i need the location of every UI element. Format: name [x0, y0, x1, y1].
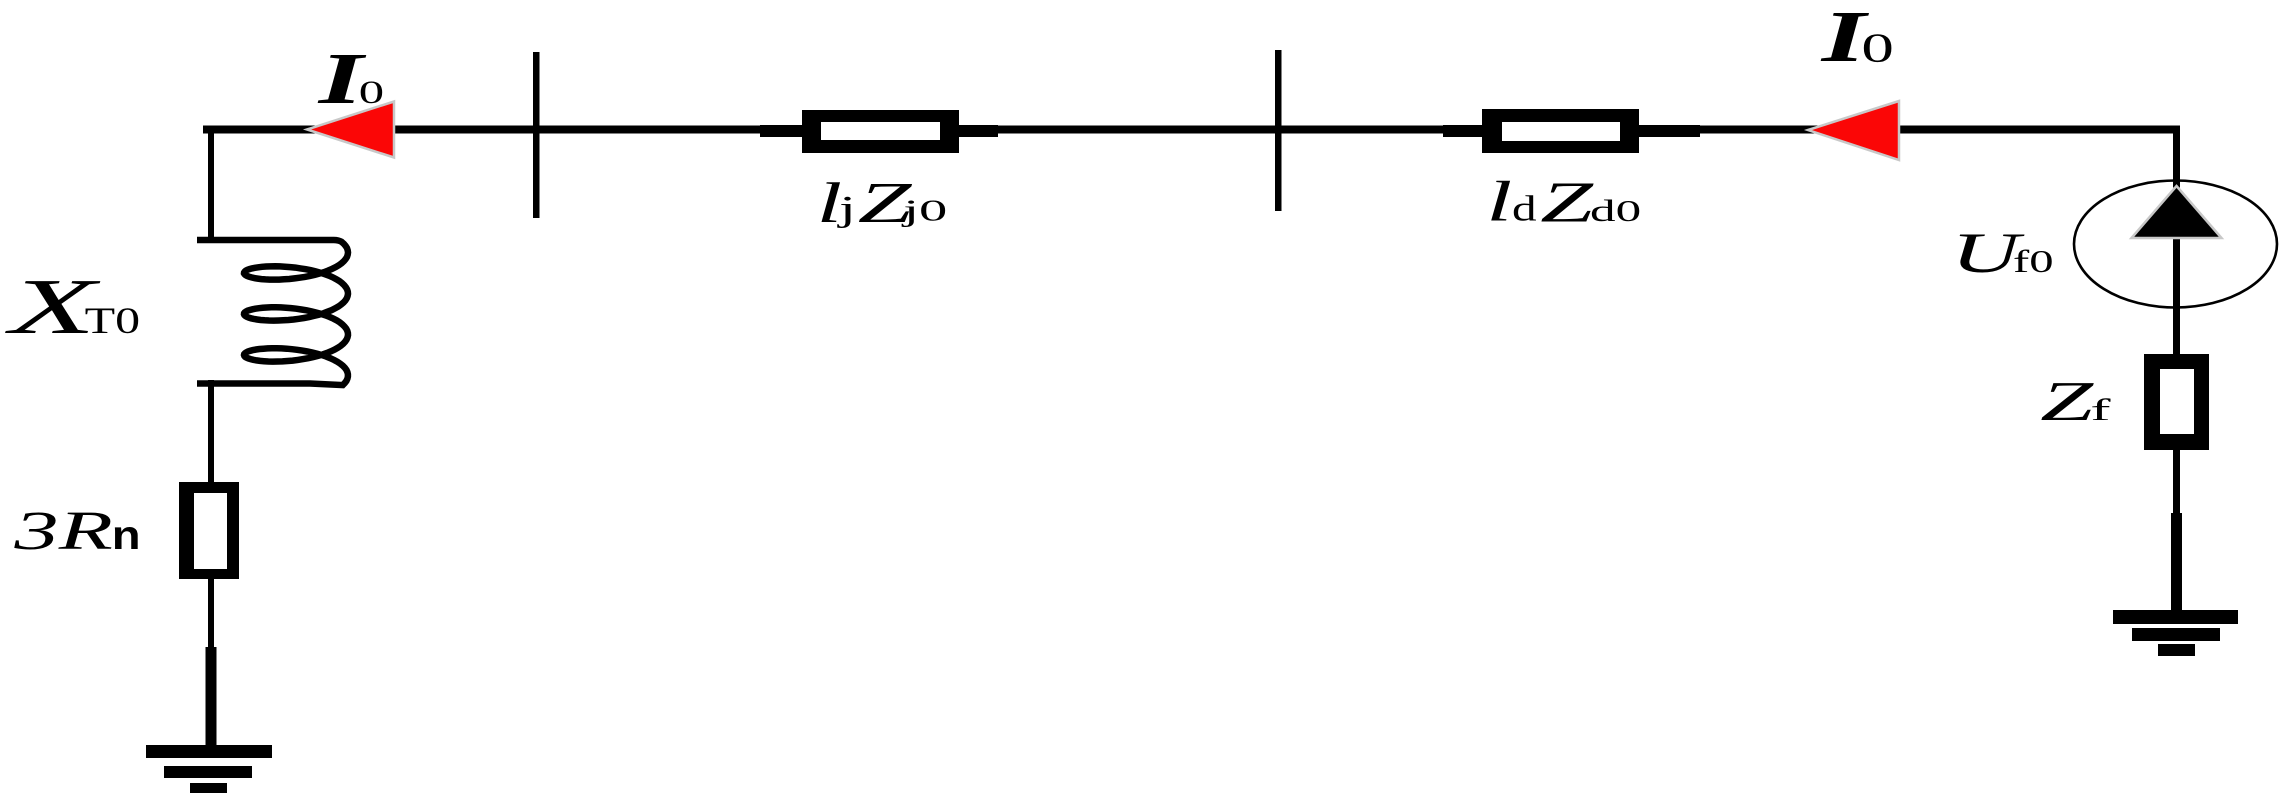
svg-text:n: n	[112, 513, 141, 558]
svg-text:T0: T0	[85, 300, 140, 341]
svg-text:l: l	[1486, 169, 1512, 233]
svg-text:3R: 3R	[13, 500, 113, 561]
svg-text:0: 0	[1861, 24, 1894, 70]
svg-text:0: 0	[359, 75, 384, 111]
svg-text:f: f	[2090, 393, 2110, 427]
svg-text:d0: d0	[1590, 194, 1641, 228]
svg-text:Z: Z	[2040, 371, 2094, 433]
svg-text:j0: j0	[901, 193, 948, 227]
svg-text:d: d	[1512, 188, 1537, 228]
svg-text:f0: f0	[2013, 244, 2054, 279]
svg-text:j: j	[837, 188, 856, 228]
svg-text:Z: Z	[1540, 170, 1594, 234]
